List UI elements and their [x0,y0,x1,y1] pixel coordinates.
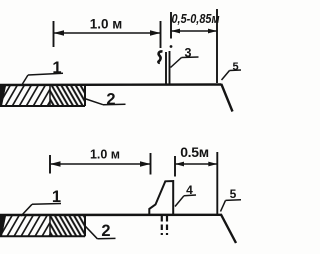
wire slope line top [221,84,232,112]
svg-text:1: 1 [52,59,61,77]
dimension 0,5-0,85m top right [171,9,220,83]
label 3 with leader [171,46,199,68]
buried stake dashed lines under curb [162,216,167,235]
svg-text:4: 4 [186,183,193,197]
svg-text:5: 5 [230,187,237,201]
cord squiggle on stake [158,51,162,62]
label 4 with leader [175,183,196,207]
wire road surface line bottom [0,214,222,217]
dimension 1.0 m bottom [50,148,151,175]
svg-text:5: 5 [232,61,238,73]
svg-text:1: 1 [52,188,61,206]
layer 1 hatched band bottom figure [0,216,85,236]
svg-text:1.0 м: 1.0 м [90,148,120,162]
label 2 top with leader [85,91,126,109]
label 1 bottom with leader [21,188,61,216]
layer 1 hatched band top figure [0,86,85,106]
svg-text:2: 2 [106,91,115,109]
svg-text:3: 3 [185,46,192,60]
stake (peg) element 3 [158,45,172,84]
label 5 top with leader [222,61,242,80]
svg-text:0,5-0,85м: 0,5-0,85м [172,11,220,26]
layer 2 hatched band top figure [50,85,85,106]
label 5 bottom with leader [221,187,242,212]
svg-text:0.5м: 0.5м [180,144,209,160]
layer 2 hatched band bottom figure [50,215,85,236]
dimension 0.5m bottom right [175,144,217,215]
label 2 bottom with leader [85,222,115,240]
label 1 top with leader [22,59,64,86]
svg-text:2: 2 [101,222,110,240]
dimension 1.0 m top [54,17,161,49]
svg-text:1.0 м: 1.0 м [90,17,123,32]
wire road surface line top [0,83,222,86]
curb profile element 4 [149,181,173,215]
wire slope line bottom [221,215,236,244]
